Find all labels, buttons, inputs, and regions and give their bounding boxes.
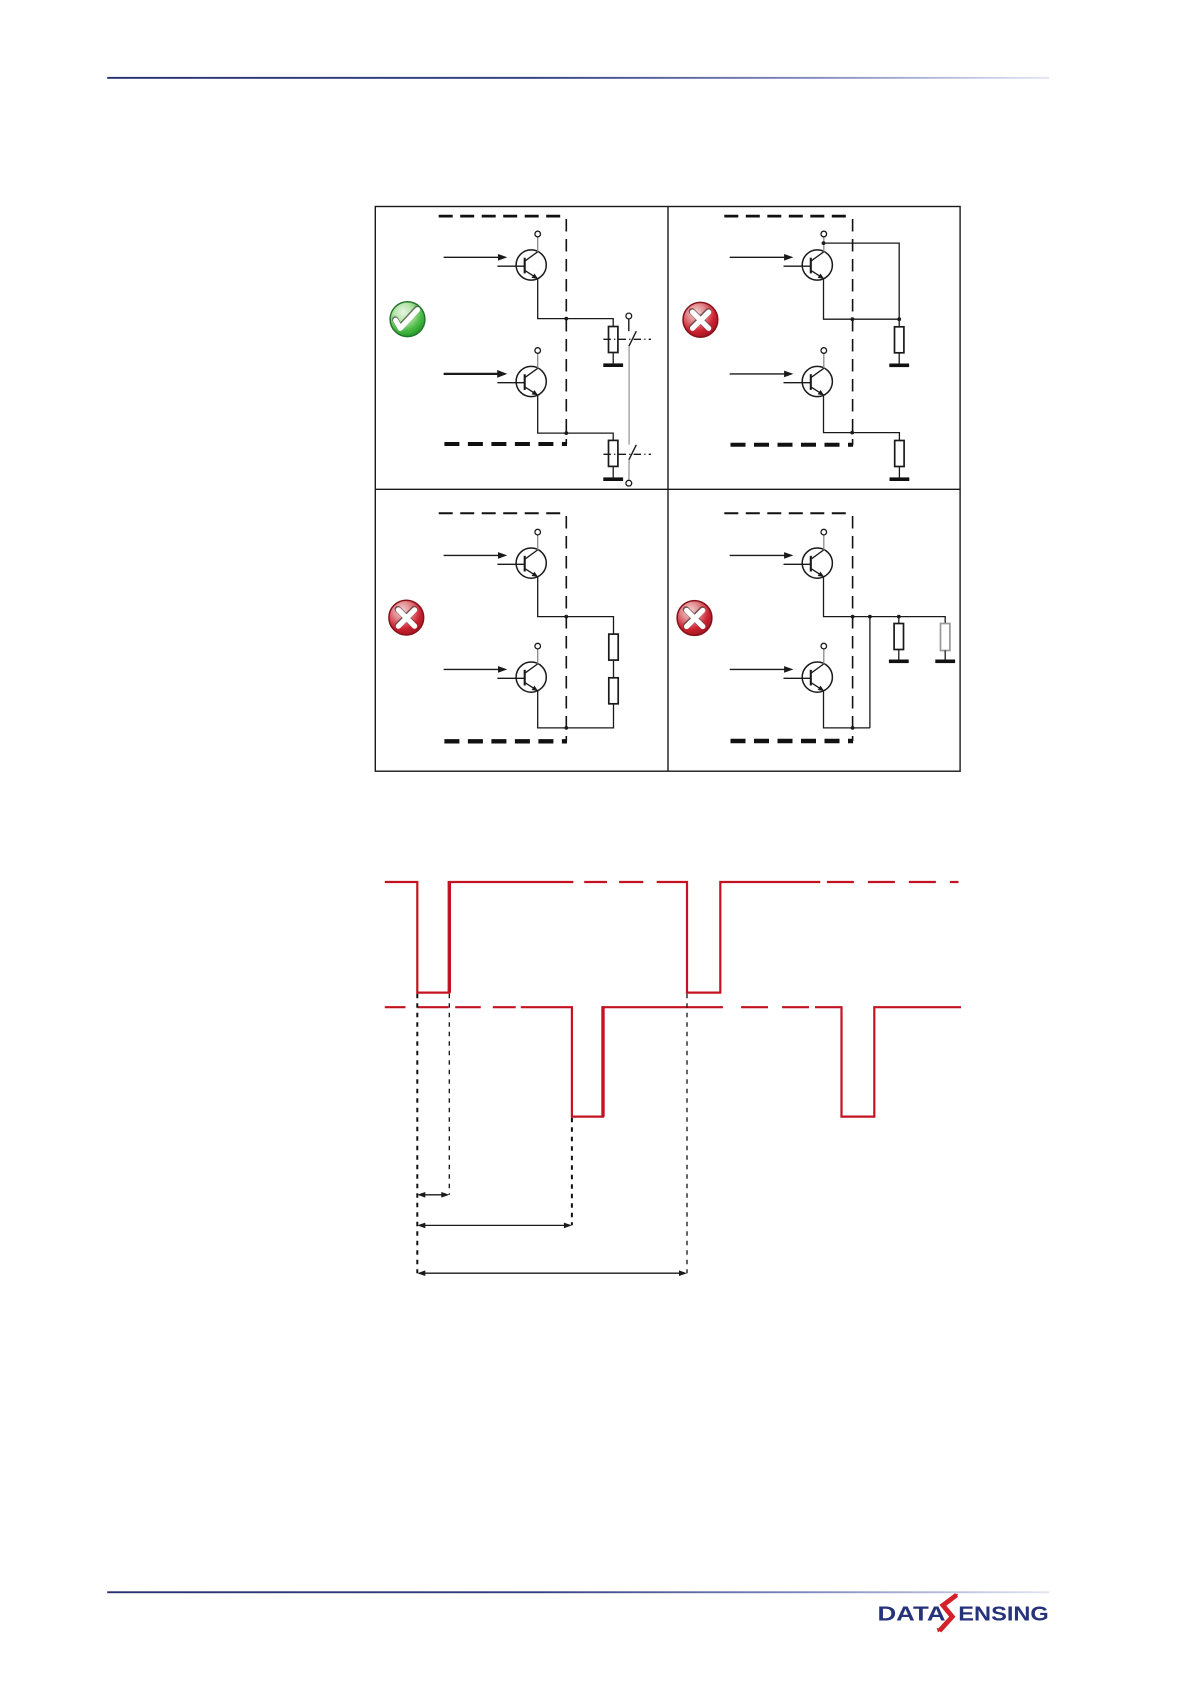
wire Q2 emitter to R2 (538, 395, 614, 440)
resistor R4 (895, 441, 904, 467)
node dot bus/R7 (897, 615, 901, 619)
resistor R7 (894, 624, 903, 650)
dashed box 4 (724, 513, 853, 741)
dimension arrow t3 (417, 1270, 687, 1276)
ground G8 (935, 660, 955, 664)
header rule (107, 77, 1049, 79)
input arrow Q3 (730, 254, 794, 261)
signal 1 thick rising edge (448, 881, 451, 993)
circuit table frame (375, 207, 960, 772)
logo DATASENSING (878, 1594, 1049, 1633)
input arrow Q6 (444, 666, 508, 673)
node dot wire6/dashed (564, 726, 568, 730)
resistor R1 (609, 327, 618, 353)
dashed marker v2 (448, 994, 450, 1195)
red cross icon 2 (389, 600, 424, 635)
input arrow Q8 (730, 666, 794, 673)
wire branch down (869, 617, 871, 728)
transistor Q7 (784, 529, 833, 578)
transistor Q6 (497, 643, 546, 692)
switch SW1 (626, 313, 636, 346)
waveform signal 2 (385, 1007, 961, 1116)
dimension arrow t2 (417, 1223, 572, 1229)
input arrow Q7 (730, 552, 794, 559)
svg-text:ENSING: ENSING (958, 1603, 1049, 1625)
input arrow Q4 (730, 371, 794, 378)
node dot emitter/resistor (897, 317, 901, 321)
wire Q4 emitter to R4 (824, 395, 900, 440)
ground G2 (603, 477, 623, 481)
node dot wire8/dashed (851, 726, 855, 730)
wire Q3 collector loop (824, 243, 900, 319)
ground G4 (890, 477, 910, 481)
wire Q5 emitter to R5 (538, 577, 614, 634)
input arrow Q2 (444, 370, 508, 378)
wire Q3 emitter (824, 279, 900, 327)
wire R2 to ground (612, 466, 614, 477)
transistor Q8 (784, 643, 833, 692)
wire R8 to ground (944, 651, 946, 660)
node dot collector (822, 241, 826, 245)
ground G7 (889, 660, 909, 664)
wire switch link grey (628, 346, 630, 444)
dashed marker v3 (571, 1118, 573, 1226)
wire R7 lead (898, 617, 900, 624)
node dot wire2/dashed (564, 431, 568, 435)
transistor Q2 (497, 348, 546, 397)
signal 2 thick rising edge (601, 1006, 604, 1116)
wire R4 to ground (898, 467, 900, 478)
svg-text:DATA: DATA (878, 1603, 946, 1625)
transistor Q5 (497, 529, 546, 578)
wire R3 to ground (898, 353, 900, 364)
dash-dot line SW1 (603, 338, 651, 340)
node dot bus/branch (868, 615, 872, 619)
wire R5 to R6 (613, 660, 615, 678)
node dot wire1/dashed (564, 317, 568, 321)
resistor R8 grey (941, 624, 950, 651)
switch SW2 (626, 445, 636, 486)
node dot wire5/dashed (564, 615, 568, 619)
dimension arrow t1 (417, 1192, 449, 1198)
transistor Q4 (784, 348, 833, 397)
dashed marker v4 (686, 994, 688, 1274)
wire Q1 emitter to R1 (538, 279, 614, 327)
input arrow Q5 (444, 552, 508, 559)
dashed marker v1 (416, 994, 418, 1274)
waveform signal 1 (385, 882, 959, 993)
dashed box 3 (439, 513, 567, 741)
wire R7 to ground (898, 650, 900, 660)
green check icon (390, 302, 425, 337)
dashed box 2 (724, 216, 853, 445)
ground G1 (603, 363, 623, 367)
resistor R3 (895, 327, 904, 353)
red cross icon 3 (677, 601, 712, 636)
input arrow Q1 (444, 254, 508, 261)
wire Q8 emitter to branch (824, 691, 870, 728)
node dot bus/dashed (851, 615, 855, 619)
resistor R5 (609, 634, 618, 660)
footer rule (107, 1591, 1049, 1593)
wire Q7 emitter bus (824, 577, 946, 624)
resistor R6 (609, 678, 618, 704)
ground G3 (889, 364, 909, 368)
transistor Q3 (784, 231, 833, 280)
wire R6 to Q6 emitter (538, 691, 614, 728)
transistor Q1 (497, 231, 546, 280)
wire R1 to ground (612, 353, 614, 364)
node dot emitter/dashed (851, 317, 855, 321)
red cross icon 1 (683, 302, 718, 337)
dashed box 1 (439, 216, 567, 444)
dash-dot line SW2 (603, 453, 651, 455)
resistor R2 (609, 440, 618, 466)
node dot wire4/dashed (850, 431, 854, 435)
